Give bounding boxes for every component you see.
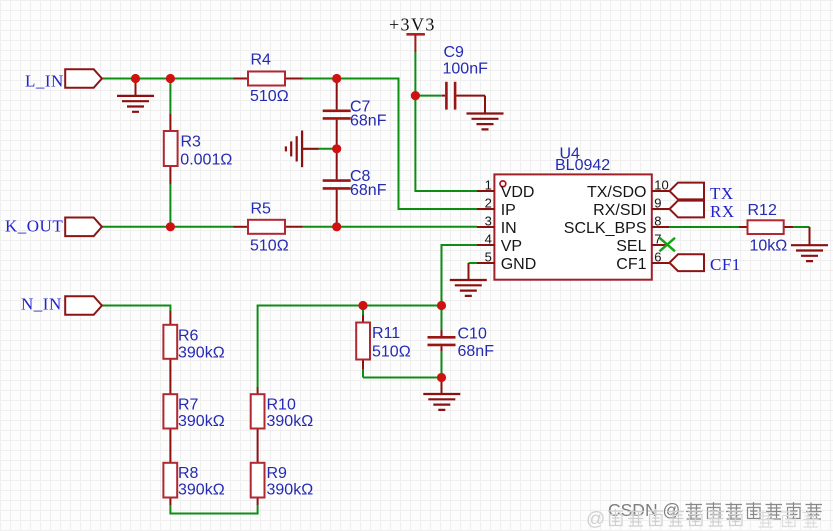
label U4 <box>560 145 581 162</box>
wire N_IN row from port to R6 column <box>102 306 170 312</box>
capacitor C8 <box>323 181 351 189</box>
svg-text:510Ω: 510Ω <box>372 344 411 361</box>
pin number 4 <box>485 232 492 247</box>
watermark CSDN <box>608 500 680 520</box>
svg-text:2: 2 <box>485 196 492 211</box>
svg-text:68nF: 68nF <box>350 113 387 130</box>
value C9 100nF <box>443 61 489 78</box>
watermark chinese glyphs main <box>686 502 823 520</box>
watermark light copy <box>586 509 819 530</box>
svg-text:9: 9 <box>654 196 661 211</box>
svg-text:R8: R8 <box>178 465 199 482</box>
junction +3V3 C9 node <box>411 91 420 100</box>
value R6 390kohm <box>178 345 225 362</box>
label BL0942 <box>555 157 610 174</box>
ground at L_IN row <box>117 79 154 112</box>
svg-text:R3: R3 <box>181 134 202 151</box>
svg-text:R4: R4 <box>251 52 272 69</box>
earth ground sideways at C7/C8 node <box>286 131 319 168</box>
resistor R4 <box>248 72 285 86</box>
pin 5 GND stub <box>477 262 494 264</box>
pin name IP <box>501 202 516 219</box>
svg-text:C10: C10 <box>458 326 487 343</box>
label C9 <box>444 44 465 61</box>
resistor R9/R10 chain pins <box>257 387 259 505</box>
wire R3 top stub <box>169 79 171 115</box>
label R11 <box>372 325 400 342</box>
label +3V3 <box>389 15 436 35</box>
port N_IN <box>65 296 102 315</box>
svg-text:VDD: VDD <box>501 184 535 201</box>
net label CF1 <box>710 255 741 274</box>
svg-text:100nF: 100nF <box>443 61 489 78</box>
wire K_OUT row from port to R5 left pin <box>102 226 234 228</box>
port L_IN <box>65 69 102 88</box>
pin name RX/SDI <box>593 202 646 219</box>
net label N_IN <box>21 295 62 314</box>
value C8 68nF <box>350 182 387 199</box>
ground at GND pin5 <box>450 263 487 296</box>
svg-text:390kΩ: 390kΩ <box>178 413 225 430</box>
svg-text:SCLK_BPS: SCLK_BPS <box>564 220 647 237</box>
pin name TX/SDO <box>587 184 647 201</box>
junction VP C10 node <box>437 301 446 310</box>
svg-text:TX/SDO: TX/SDO <box>587 184 647 201</box>
svg-text:R11: R11 <box>372 325 400 342</box>
ground at R12 <box>791 227 828 261</box>
wire N_IN row from R10 column to C10 column <box>258 306 442 388</box>
svg-text:8: 8 <box>654 214 661 229</box>
svg-text:390kΩ: 390kΩ <box>267 413 314 430</box>
resistor R6 <box>163 325 177 359</box>
label R6 <box>178 328 199 345</box>
pin 9 RX/SDI stub <box>652 208 669 210</box>
svg-text:TX: TX <box>710 184 734 203</box>
wire GND pin5 stub <box>469 262 478 264</box>
resistor R3 <box>164 131 178 166</box>
label R12 <box>748 202 777 219</box>
wire R3 bottom to K_OUT row <box>169 184 171 227</box>
wire R11 bottom stub <box>362 369 364 378</box>
wire R12 to ground <box>793 226 810 228</box>
value R10 390kohm <box>267 413 314 430</box>
svg-text:4: 4 <box>485 232 492 247</box>
pin 8 SCLK_BPS stub <box>652 226 669 228</box>
value R3 0.001ohm <box>180 152 232 169</box>
junction C7/C8 earth node <box>332 144 341 153</box>
svg-text:510Ω: 510Ω <box>250 237 289 254</box>
label R4 <box>251 52 272 69</box>
label C10 <box>458 326 487 343</box>
svg-text:SEL: SEL <box>616 238 646 255</box>
capacitor C10 <box>428 330 456 351</box>
pin number 3 <box>485 214 492 229</box>
pin number 10 <box>654 178 668 193</box>
svg-text:N_IN: N_IN <box>21 295 62 314</box>
svg-text:R10: R10 <box>267 397 296 414</box>
wire L_IN row from port to R4 left pin <box>102 78 234 80</box>
svg-text:RX/SDI: RX/SDI <box>593 202 646 219</box>
port CF1 <box>670 254 705 271</box>
resistor R12 <box>748 220 784 234</box>
svg-text:390kΩ: 390kΩ <box>178 482 225 499</box>
capacitor C7 pins column <box>336 79 338 180</box>
svg-text:68nF: 68nF <box>350 182 387 199</box>
junction C10 bottom ground node <box>437 373 446 382</box>
pin number 6 <box>654 250 661 265</box>
port RX <box>670 201 705 218</box>
svg-text:R12: R12 <box>748 202 777 219</box>
wire R11 bottom to C10 bottom <box>363 377 442 379</box>
pin R5 right <box>285 226 303 228</box>
pin 10 TX/SDO stub <box>652 190 669 192</box>
svg-text:BL0942: BL0942 <box>555 157 610 174</box>
svg-text:C9: C9 <box>444 44 465 61</box>
value R5 510ohm <box>250 237 289 254</box>
value C10 68nF <box>458 343 495 360</box>
resistor R10 <box>251 394 265 428</box>
svg-text:390kΩ: 390kΩ <box>267 482 314 499</box>
net label L_IN <box>25 72 64 91</box>
label R7 <box>178 397 199 414</box>
pin 7 SEL stub <box>652 244 669 246</box>
svg-text:K_OUT: K_OUT <box>5 217 63 236</box>
pin R4 right <box>285 78 303 80</box>
no-connect X on SEL pin7 <box>660 238 676 252</box>
value R7 390kohm <box>178 413 225 430</box>
svg-text:1: 1 <box>485 178 492 193</box>
wire R11 top stub <box>362 306 364 316</box>
svg-text:IN: IN <box>501 220 517 237</box>
resistor R6 chain pins <box>169 311 171 505</box>
resistor R5 <box>248 220 285 234</box>
pin number 7 <box>654 232 661 247</box>
value R4 510ohm <box>250 88 289 105</box>
label C8 <box>350 168 371 185</box>
pin R3 bottom <box>169 166 171 184</box>
label R3 <box>181 134 202 151</box>
value R11 510ohm <box>372 344 411 361</box>
wire bottom link R8 to R9 <box>170 505 257 514</box>
pin 1 VDD stub <box>477 190 494 192</box>
pin name SEL <box>616 238 646 255</box>
net label TX <box>710 184 734 203</box>
svg-text:CF1: CF1 <box>616 256 646 273</box>
value C7 68nF <box>350 113 387 130</box>
label R9 <box>267 465 288 482</box>
power +3V3 <box>406 34 425 52</box>
svg-text:68nF: 68nF <box>458 343 495 360</box>
svg-text:10kΩ: 10kΩ <box>750 238 788 255</box>
resistor R7 <box>163 394 177 428</box>
ground for C9 <box>467 96 504 130</box>
port TX <box>670 183 705 200</box>
pin R3 top <box>169 114 171 131</box>
pin number 2 <box>485 196 492 211</box>
port K_OUT <box>65 218 102 237</box>
pin 4 VP stub <box>477 244 494 246</box>
pin 3 IN stub <box>477 226 494 228</box>
svg-text:CSDN @: CSDN @ <box>608 500 680 520</box>
pin number 1 <box>485 178 492 193</box>
pin name IN <box>501 220 517 237</box>
net label RX <box>710 202 735 221</box>
value R9 390kohm <box>267 482 314 499</box>
svg-text:R6: R6 <box>178 328 199 345</box>
pin name GND <box>501 256 537 273</box>
pin name VP <box>501 238 522 255</box>
pin 2 IP stub <box>477 208 494 210</box>
wire SCLK_BPS pin8 to R12 <box>669 226 739 228</box>
label R5 <box>251 201 272 218</box>
value R8 390kohm <box>178 482 225 499</box>
resistor R8 <box>163 463 177 498</box>
junction C8 bottom node <box>332 222 341 231</box>
label R8 <box>178 465 199 482</box>
svg-text:510Ω: 510Ω <box>250 88 289 105</box>
capacitor C7 <box>323 111 351 119</box>
junction R11 top node <box>358 301 367 310</box>
label C7 <box>350 99 371 116</box>
pin R12 right <box>784 226 793 228</box>
svg-text:10: 10 <box>654 178 668 193</box>
pin R5 left <box>234 226 249 228</box>
op-amp U4 BL0942 IC body <box>494 174 651 279</box>
svg-text:R5: R5 <box>251 201 272 218</box>
svg-text:@: @ <box>586 509 605 530</box>
wire VP riser from N_IN row to pin4 <box>442 245 478 306</box>
svg-text:GND: GND <box>501 256 537 273</box>
svg-text:390kΩ: 390kΩ <box>178 345 225 362</box>
svg-text:R7: R7 <box>178 397 199 414</box>
pin R4 left <box>234 78 249 80</box>
wire earth stub to C7/C8 node <box>318 148 337 150</box>
capacitor C9 <box>442 82 485 110</box>
junction C7 top node <box>332 74 341 83</box>
svg-text:0.001Ω: 0.001Ω <box>180 152 232 169</box>
junction R3 top node <box>166 74 175 83</box>
svg-text:3: 3 <box>485 214 492 229</box>
pin number 8 <box>654 214 661 229</box>
value R12 10kohm <box>750 238 788 255</box>
svg-text:CF1: CF1 <box>710 255 741 274</box>
pin 6 CF1 stub <box>652 262 669 264</box>
label R10 <box>267 397 296 414</box>
net label K_OUT <box>5 217 63 236</box>
pin name VDD <box>501 184 535 201</box>
wire +3V3 node to C9 <box>415 95 441 97</box>
pin name CF1 <box>616 256 646 273</box>
svg-text:RX: RX <box>710 202 735 221</box>
capacitor C8 bottom pin <box>336 190 338 227</box>
wire +3V3 rail down to VDD pin1 <box>415 52 477 192</box>
svg-text:+3V3: +3V3 <box>389 15 436 35</box>
svg-text:R9: R9 <box>267 465 288 482</box>
svg-text:VP: VP <box>501 238 522 255</box>
pin name SCLK_BPS <box>564 220 647 237</box>
resistor R11 pins <box>362 315 364 369</box>
wire C10 top stub <box>441 306 443 331</box>
wire K_OUT row from R5 to IN pin3 <box>303 226 478 228</box>
svg-text:IP: IP <box>501 202 516 219</box>
wire from R4 right pin to corner down to IP pin2 <box>303 79 478 210</box>
ground at C10 bottom <box>423 378 460 410</box>
pin1 marker circle <box>500 181 506 187</box>
wire C10 bottom stub <box>441 351 443 378</box>
pin R12 left <box>739 226 748 228</box>
pin number 5 <box>485 250 492 265</box>
resistor R9 <box>251 463 265 498</box>
svg-text:5: 5 <box>485 250 492 265</box>
junction L_IN ground node <box>131 74 140 83</box>
pin number 9 <box>654 196 661 211</box>
svg-text:L_IN: L_IN <box>25 72 64 91</box>
resistor R11 <box>356 323 370 360</box>
junction R3 bottom K_OUT node <box>166 222 175 231</box>
